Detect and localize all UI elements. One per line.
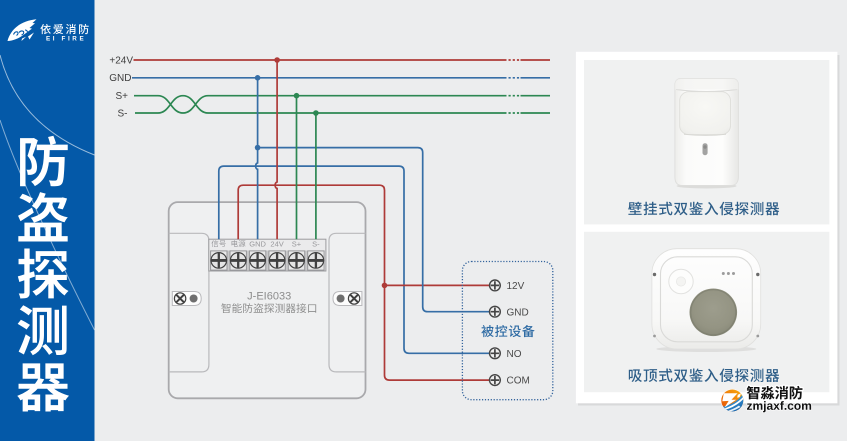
- wire: branch to 12V: [385, 284, 490, 286]
- junction dot GND bus: [255, 75, 261, 81]
- junction dot S+: [294, 93, 300, 99]
- controlled device dashed box: [462, 262, 552, 400]
- junction dot GND branch: [255, 145, 261, 151]
- svg-text:12V: 12V: [507, 281, 525, 292]
- controlled device terminal 12V: [490, 280, 501, 291]
- junction dot 12V branch: [382, 283, 388, 289]
- terminal label XinHao (signal): [211, 240, 225, 247]
- left tab screw: [174, 293, 185, 304]
- svg-text:GND: GND: [507, 307, 529, 318]
- terminal label DianYuan (power): [232, 240, 246, 247]
- +24V bus wire: [134, 59, 551, 61]
- wire: 24V terminal to +24V bus: [275, 60, 277, 239]
- wire: GND branch to device GND: [258, 148, 490, 312]
- S- bus wire with twisted pair: [135, 96, 550, 113]
- device right ear outline: [329, 233, 366, 372]
- GND bus wire: [132, 77, 550, 79]
- left mounting tab: [172, 292, 201, 306]
- svg-text:S+: S+: [115, 91, 128, 102]
- wire: S+ terminal to S+ bus: [296, 96, 298, 240]
- PIR detector U-photo1 body: [675, 79, 739, 189]
- zhimiao fire watermark icon: [721, 389, 744, 412]
- ceiling detector photo2: [652, 249, 761, 352]
- product panel: [576, 52, 838, 404]
- zmjaxf.com text: [747, 401, 811, 412]
- svg-text:COM: COM: [507, 376, 530, 387]
- photo area: ceiling detector: [584, 232, 829, 392]
- svg-text:+24V: +24V: [109, 55, 133, 66]
- caption: ceiling-mount dual-tech intrusion detector: [629, 368, 779, 382]
- junction dot S-: [313, 110, 319, 116]
- terminal 4 square and screw: [269, 251, 285, 270]
- blue side banner: [0, 0, 95, 441]
- terminal 1 square and screw: [211, 251, 227, 270]
- wire: S- terminal to S- bus: [315, 113, 317, 239]
- svg-text:24V: 24V: [270, 239, 283, 248]
- controlled device terminal COM: [490, 375, 501, 386]
- device name text: [221, 303, 316, 313]
- left tab dot: [190, 295, 198, 303]
- wire: signal terminal to NO: [219, 166, 490, 353]
- svg-text:S+: S+: [292, 239, 302, 248]
- zhimiao fire watermark text: [747, 386, 803, 400]
- vertical title: anti-theft detector: [20, 136, 68, 187]
- banner decorative arc 2: [0, 120, 95, 330]
- product panel shadow: [578, 55, 840, 406]
- svg-text:GND: GND: [109, 73, 131, 84]
- terminal block inner dark strip: [210, 251, 324, 271]
- right tab dot: [337, 295, 345, 303]
- svg-text:EI FIRE: EI FIRE: [46, 35, 86, 42]
- banner decorative arc 1: [0, 55, 95, 155]
- terminal 3 square and screw: [249, 251, 265, 270]
- svg-text:NO: NO: [507, 349, 522, 360]
- logo text EI fire chinese: [40, 24, 88, 34]
- junction dot +24V: [274, 57, 280, 63]
- label controlled device (BeiKongSheBei): [481, 325, 534, 337]
- right tab screw: [348, 293, 359, 304]
- svg-text:S-: S-: [312, 239, 320, 248]
- right mounting tab: [333, 292, 362, 306]
- photo area: wall-mount detector: [584, 60, 829, 224]
- logo script inside bird: [14, 30, 28, 36]
- S+ bus wire with twisted pair: [134, 96, 550, 113]
- svg-text:S-: S-: [118, 108, 128, 119]
- device left ear outline: [169, 233, 209, 372]
- controlled device terminal GND: [490, 306, 501, 317]
- svg-text:J-EI6033: J-EI6033: [247, 291, 291, 303]
- wire: power terminal to 12V/COM: [238, 185, 489, 380]
- svg-text:GND: GND: [249, 239, 266, 248]
- terminal 5 square and screw: [288, 251, 304, 270]
- controlled device terminal NO: [490, 348, 501, 359]
- terminal block outer: [209, 239, 326, 271]
- terminal 2 square and screw: [230, 251, 246, 270]
- device J-EI6033 outer box: [169, 202, 366, 398]
- EI FIRE logo bird: [8, 19, 37, 41]
- wire: GND terminal to GND bus: [256, 78, 258, 239]
- terminal 6 square and screw: [308, 251, 324, 270]
- caption: wall-mount dual-tech intrusion detector: [628, 202, 779, 216]
